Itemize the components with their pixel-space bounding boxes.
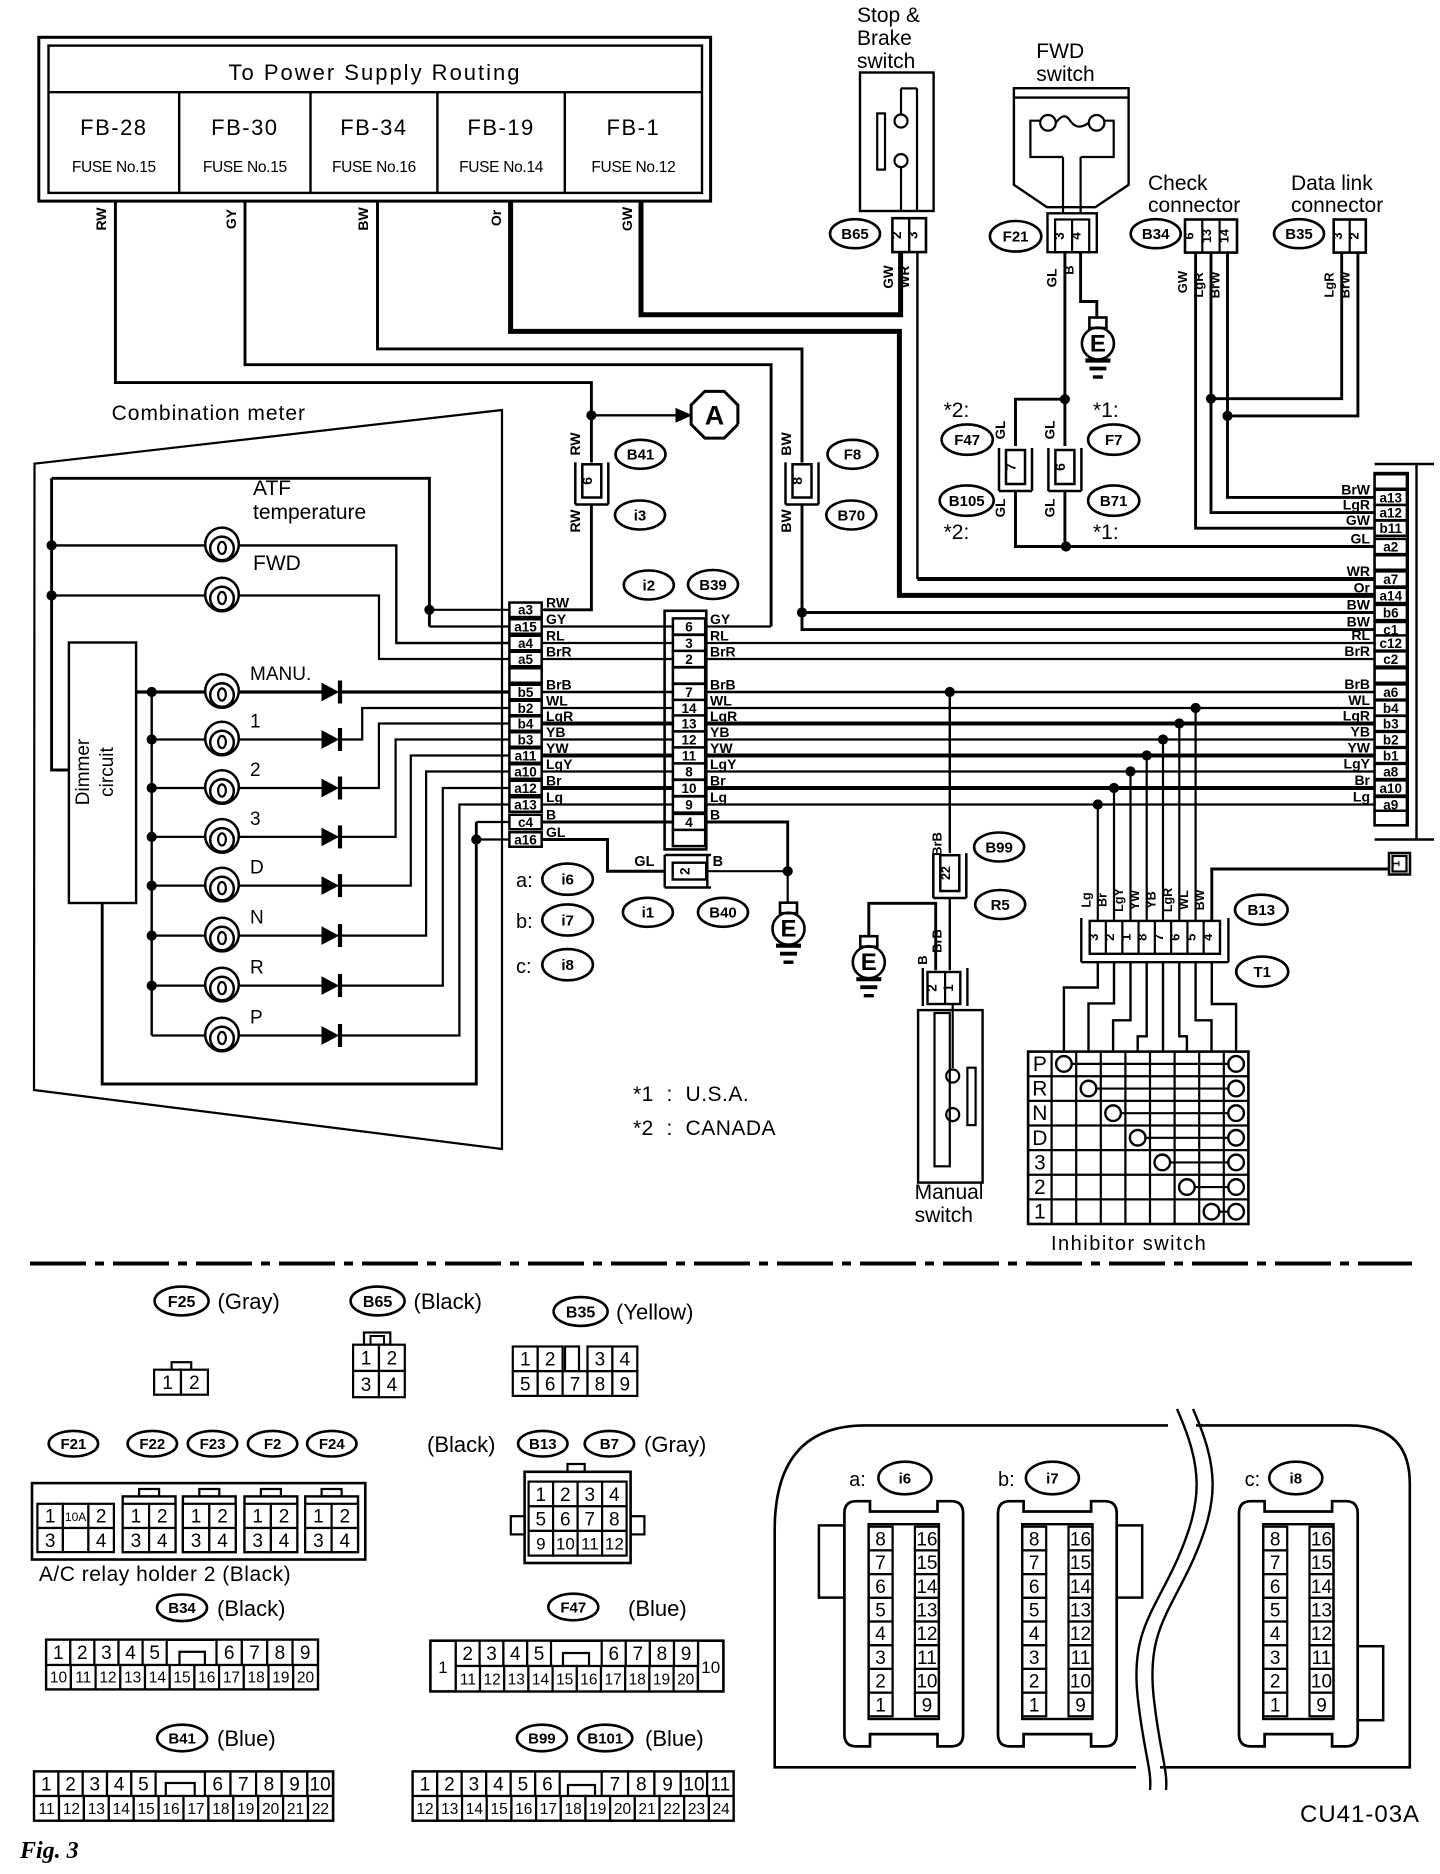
svg-text:8: 8 [1270,1529,1281,1550]
svg-text:connector: connector [1291,194,1383,217]
svg-text:4: 4 [685,815,693,830]
separator dashed line [30,1262,1412,1266]
svg-text:B99: B99 [528,1730,556,1747]
svg-text:2: 2 [217,1507,228,1528]
svg-text:GL: GL [1043,499,1058,518]
svg-text:*1:: *1: [1093,399,1119,422]
pin b2 [509,701,541,716]
wire GL branch split [1060,395,1069,404]
svg-text:FWD: FWD [253,552,301,575]
svg-text:11: 11 [75,1670,91,1687]
svg-text:1: 1 [1034,1201,1046,1224]
svg-text:9: 9 [620,1374,631,1395]
svg-text:13: 13 [1070,1600,1091,1621]
svg-text:2: 2 [1102,934,1117,941]
svg-text:F23: F23 [200,1436,226,1453]
svg-text:R: R [1032,1078,1047,1101]
svg-text:1: 1 [420,1775,431,1796]
diode D [322,877,338,894]
oval F47 [942,424,993,454]
svg-text:B35: B35 [1285,226,1313,243]
svg-text:BrB: BrB [1344,676,1370,692]
wire YW to B13 [1142,751,1151,760]
svg-text:18: 18 [629,1671,646,1688]
svg-text:a5: a5 [518,652,534,667]
svg-text:D: D [250,858,264,879]
svg-text:10: 10 [701,1658,720,1677]
svg-text:6: 6 [1182,232,1197,239]
pin b6 [1375,605,1407,620]
svg-text:1: 1 [252,1507,263,1528]
ground E (R51) [860,936,877,947]
svg-text:14: 14 [1217,229,1231,243]
svg-text:b4: b4 [1383,701,1399,716]
pin c1 [1375,622,1407,637]
wire B row c4 to junction [542,822,788,871]
svg-text:FB-1: FB-1 [607,115,661,140]
svg-text:B41: B41 [627,447,655,464]
pin b1 [1375,748,1407,763]
svg-text:9: 9 [1316,1695,1327,1716]
svg-text:2: 2 [96,1507,107,1528]
svg-text:5: 5 [534,1644,545,1665]
svg-text:F21: F21 [1003,229,1029,246]
svg-text:F25: F25 [168,1294,196,1311]
panel break wavy line [1136,1409,1196,1790]
svg-text:7: 7 [249,1643,260,1664]
connector R51 [922,968,924,1006]
svg-text:FUSE No.15: FUSE No.15 [203,159,287,176]
svg-text:B101: B101 [587,1730,623,1747]
svg-text:3: 3 [313,1531,324,1552]
svg-text:Dimmer: Dimmer [73,738,94,805]
svg-text:BrB: BrB [930,832,945,856]
svg-text:GW: GW [1346,512,1371,528]
wire BrW from B34 to a13 [1228,253,1375,498]
svg-text:WL: WL [1177,890,1191,910]
svg-text:BW: BW [778,432,794,456]
svg-text:a11: a11 [515,748,537,763]
svg-text:B41: B41 [168,1730,196,1747]
oval i1 [623,898,673,927]
svg-text:LgY: LgY [710,756,737,772]
svg-text:a12: a12 [1379,505,1402,520]
svg-text:14: 14 [1311,1577,1333,1598]
relay sub-connector F2 [245,1496,298,1552]
svg-text:19: 19 [589,1801,606,1818]
svg-text:2: 2 [545,1350,556,1371]
svg-text:16: 16 [198,1670,215,1687]
wire Or from FB-19 (thick) [511,201,1375,595]
wire GL rejoin to a2 [1016,492,1067,547]
svg-text:6: 6 [560,1509,571,1530]
svg-text:a16: a16 [514,832,537,847]
svg-text:3: 3 [131,1531,142,1552]
svg-text:GL: GL [993,499,1008,518]
svg-text:13: 13 [916,1600,937,1621]
wire B13 pin to inhibitor col8 [1212,962,1236,1051]
svg-text:1: 1 [250,712,261,733]
svg-text:18: 18 [564,1801,581,1818]
svg-text:YW: YW [1128,890,1142,910]
svg-text:2: 2 [1029,1672,1040,1693]
svg-text:P: P [250,1008,263,1029]
svg-text:*2:: *2: [944,521,970,544]
svg-text:14: 14 [916,1577,938,1598]
wire LgY row [542,770,1375,772]
connector B39 [624,571,674,600]
svg-text:7: 7 [1029,1553,1040,1574]
svg-text:a2: a2 [1383,539,1398,554]
svg-text:3: 3 [1052,232,1067,240]
diode 2 [322,780,338,797]
svg-text:2: 2 [875,1672,886,1693]
svg-text:YW: YW [1347,740,1370,756]
svg-text:3: 3 [1029,1648,1040,1669]
pin a13 [509,797,541,812]
svg-text:F2: F2 [264,1436,282,1453]
svg-text:10A: 10A [65,1510,86,1524]
svg-text:14: 14 [1070,1577,1092,1598]
svg-text:a15: a15 [514,619,537,634]
svg-text:13: 13 [124,1670,141,1687]
wire B13 pin to inhibitor col2 [1089,962,1115,1051]
wire GW from B34 to b11 [1196,253,1375,529]
svg-text:To Power Supply Routing: To Power Supply Routing [228,60,521,85]
svg-text:a7: a7 [1383,572,1398,587]
svg-text:BrB: BrB [710,677,736,693]
svg-text:8: 8 [264,1775,275,1796]
relay sub-connector F21 [37,1504,63,1528]
svg-text:8: 8 [685,764,693,779]
svg-text:GL: GL [1043,421,1058,440]
svg-text:11: 11 [1312,1648,1332,1669]
inhibitor contact row P [1056,1056,1072,1072]
connector 22 (B99/R5) [932,853,935,898]
svg-text:LgR: LgR [1191,272,1206,298]
svg-text:15: 15 [490,1801,507,1818]
svg-text:17: 17 [223,1670,240,1687]
svg-text:Br: Br [1096,893,1110,907]
wire B from F21 pin4 to ground [1081,252,1097,317]
pin a7 [1375,571,1407,586]
connector B65 pinout [351,1287,405,1316]
inhibitor contact row 3 [1155,1155,1171,1171]
indicator lamp MANU [147,687,156,696]
svg-text:Brake: Brake [857,27,912,50]
svg-text:8: 8 [1029,1529,1040,1550]
wire YW row [542,754,1375,758]
svg-text:1: 1 [941,984,956,992]
svg-text:Stop &: Stop & [857,4,920,27]
svg-text:BW: BW [1193,889,1207,910]
svg-text:4: 4 [1200,933,1215,941]
B39 pin 6 [673,618,705,634]
svg-text:8: 8 [1135,934,1150,941]
svg-text:BrR: BrR [546,644,572,660]
svg-text:*2:: *2: [944,399,970,422]
svg-text:12: 12 [99,1670,116,1687]
pin a11 [509,748,541,763]
svg-text:7: 7 [1003,463,1019,471]
svg-text:LgR: LgR [1322,272,1337,298]
svg-text:24: 24 [713,1801,731,1818]
svg-text:GY: GY [710,611,731,627]
svg-text:2: 2 [340,1507,351,1528]
svg-text:F22: F22 [139,1436,165,1453]
svg-text:10: 10 [50,1670,68,1687]
svg-text:WL: WL [710,693,732,709]
svg-text:6: 6 [1052,463,1068,471]
svg-text:B7: B7 [600,1436,619,1453]
wire Lg to B13 [1093,800,1102,809]
wire WR from B65 pin3 to a7 [916,252,918,579]
connector F21 [990,221,1041,252]
pin a5 [509,652,541,667]
connector B13/B7 pinout [568,1464,585,1472]
relay sub-connector F23 [183,1496,236,1552]
pin c2 [1375,651,1407,666]
pin a15 [509,619,541,634]
svg-text:a3: a3 [518,603,534,618]
empty B39 cells [673,667,705,683]
empty pin cell left column [509,668,541,683]
svg-text:RL: RL [546,628,565,644]
diode MANU [322,684,338,701]
svg-text:BrW: BrW [1341,481,1371,497]
svg-text:2: 2 [678,867,693,875]
wire WL row [542,707,1375,709]
svg-text:a8: a8 [1383,764,1399,779]
svg-text:21: 21 [287,1801,304,1818]
svg-text:BrB: BrB [546,677,572,693]
wire B13 pin to inhibitor col6 [1179,962,1187,1051]
diode R [322,977,338,994]
svg-text:BW: BW [1347,597,1371,613]
svg-text:3: 3 [469,1775,480,1796]
svg-text:RL: RL [1351,627,1370,643]
svg-text:RW: RW [567,509,583,533]
wire LgR row [542,722,1375,726]
svg-text:2: 2 [1346,232,1361,239]
pin a12 [509,781,541,796]
svg-text:13: 13 [682,716,698,731]
connector 7 (F47/B105) [998,448,1001,491]
instrument connector panel [775,1425,1410,1767]
svg-text:i7: i7 [1046,1470,1059,1487]
svg-text:D: D [1032,1127,1047,1150]
svg-text:GL: GL [993,421,1008,440]
svg-text:10: 10 [1311,1672,1332,1693]
svg-text:Lg: Lg [546,789,563,805]
svg-text:3: 3 [1270,1648,1281,1669]
svg-text:12: 12 [483,1671,500,1688]
svg-text:9: 9 [685,797,693,812]
svg-text:R5: R5 [991,897,1010,914]
svg-text:Fig. 3: Fig. 3 [19,1838,79,1864]
svg-text:F47: F47 [560,1599,586,1616]
svg-text:B34: B34 [168,1600,196,1617]
svg-text:14: 14 [113,1801,131,1818]
svg-text:2: 2 [387,1349,398,1370]
power supply routing box [39,37,711,201]
svg-text:5: 5 [138,1775,149,1796]
svg-text:GL: GL [1351,531,1371,547]
wire B from R51 to ground [869,903,936,970]
svg-text:i2: i2 [643,577,656,594]
oval B41 [616,440,666,469]
B39 pin 12 [673,731,705,747]
pin a8 [1375,764,1407,779]
lamp common bus [150,692,152,1036]
svg-text:BrW: BrW [1208,271,1223,298]
pin a12 [1375,505,1407,520]
svg-text:11: 11 [682,748,697,763]
svg-text:16: 16 [916,1529,937,1550]
svg-text:10: 10 [683,1775,704,1796]
oval i3 [615,501,665,530]
pin b3 [1375,716,1407,731]
svg-text:4: 4 [620,1350,631,1371]
svg-text:B40: B40 [709,905,737,922]
svg-text:3: 3 [486,1644,497,1665]
svg-text:B: B [546,807,556,823]
diode P [322,1027,338,1044]
svg-text:4: 4 [340,1531,351,1552]
wire BW to b6 and c1 [802,504,1375,613]
B39 pin 8 [673,763,705,779]
svg-text:7: 7 [570,1374,581,1395]
B39 pin 4 [673,814,705,830]
svg-text:i6: i6 [561,872,574,889]
svg-text:B13: B13 [1248,902,1276,919]
svg-text:3: 3 [90,1775,101,1796]
svg-text:3: 3 [1330,232,1345,239]
svg-text:BrR: BrR [710,644,736,660]
empty right column cells [1375,474,1407,489]
B39 pin 2 [673,651,705,667]
svg-text:4: 4 [875,1624,886,1645]
svg-text:E: E [780,916,796,943]
svg-text:B35: B35 [566,1304,595,1321]
svg-text:3: 3 [101,1643,112,1664]
pin b11 [1375,521,1407,536]
svg-text:Lg: Lg [710,789,727,805]
oval R5 [975,890,1025,919]
svg-text:*2 : CANADA: *2 : CANADA [633,1117,776,1140]
indicator lamp R [147,981,156,990]
svg-text:E: E [861,949,877,976]
svg-text:YW: YW [710,740,733,756]
wire BW to c1 [802,613,1375,630]
B39 pin 13 [673,715,705,731]
svg-text:Data link: Data link [1291,172,1373,195]
svg-text:a10: a10 [514,764,537,779]
indicator lamp 1 [147,735,156,744]
svg-text:4: 4 [96,1531,107,1552]
svg-text:10: 10 [310,1775,331,1796]
wire RW to combination meter a3 [590,415,593,462]
wire B13 pin to inhibitor col7 [1196,962,1212,1051]
svg-text:6: 6 [1167,934,1182,941]
svg-text:CU41-03A: CU41-03A [1300,1801,1420,1828]
svg-text:13: 13 [441,1801,458,1818]
svg-text:GY: GY [546,611,567,627]
svg-text:3: 3 [252,1531,263,1552]
svg-text:(Gray): (Gray) [644,1432,706,1457]
A/C relay holder ovals [49,1431,98,1457]
svg-text:*1 : U.S.A.: *1 : U.S.A. [633,1083,749,1106]
svg-text:15: 15 [173,1670,190,1687]
svg-text:*1:: *1: [1093,521,1119,544]
svg-text:FUSE No.15: FUSE No.15 [72,159,156,176]
connector B34 pinout [157,1595,207,1622]
oval F8 [828,440,878,469]
svg-text:20: 20 [262,1801,280,1818]
svg-text:4: 4 [125,1643,136,1664]
inhibitor contact row N [1105,1105,1121,1121]
svg-text:F47: F47 [954,432,980,449]
svg-text:2: 2 [560,1485,571,1506]
svg-text:7: 7 [685,685,693,700]
svg-text:BrW: BrW [1338,271,1353,298]
svg-text:9: 9 [1075,1695,1086,1716]
svg-text:5: 5 [1184,934,1199,941]
svg-text:6: 6 [224,1643,235,1664]
svg-text:5: 5 [520,1374,531,1395]
svg-text:1: 1 [162,1373,173,1394]
svg-text:a4: a4 [518,636,534,651]
svg-text:i8: i8 [1290,1470,1303,1487]
svg-text:Check: Check [1148,172,1208,195]
svg-text:9: 9 [681,1644,692,1665]
pin a6 [1375,684,1407,699]
svg-text:FB-19: FB-19 [467,115,534,140]
svg-text:17: 17 [187,1801,204,1818]
meter lamp ground rail [102,822,476,1084]
svg-text:6: 6 [875,1577,886,1598]
svg-text:WL: WL [1348,692,1370,708]
svg-text:A: A [705,401,725,431]
svg-text:5: 5 [149,1643,160,1664]
svg-text:(Black): (Black) [427,1432,495,1457]
svg-text:c12: c12 [1379,636,1402,651]
svg-text:7: 7 [633,1644,644,1665]
pin a10 [1375,780,1407,795]
svg-text:c:: c: [516,956,532,978]
svg-text:15: 15 [916,1553,937,1574]
svg-text:15: 15 [138,1801,155,1818]
ground E (F21) [1089,318,1106,329]
svg-text:3: 3 [595,1350,606,1371]
svg-text:15: 15 [1311,1553,1332,1574]
node A [691,391,738,438]
svg-text:6: 6 [608,1644,619,1665]
svg-text:1: 1 [536,1485,547,1506]
oval B99 [974,833,1024,862]
wire GY row a15 to B39 [542,625,771,627]
svg-text:b1: b1 [1383,748,1399,763]
svg-text:Or: Or [1354,579,1371,595]
svg-text:F21: F21 [60,1436,86,1453]
svg-text:2: 2 [189,1373,200,1394]
svg-text:14: 14 [149,1670,167,1687]
svg-text:Br: Br [710,773,726,789]
svg-text:FB-34: FB-34 [340,115,407,140]
svg-text:FB-28: FB-28 [80,115,147,140]
svg-text:c4: c4 [518,815,534,830]
svg-text:22: 22 [663,1801,680,1818]
